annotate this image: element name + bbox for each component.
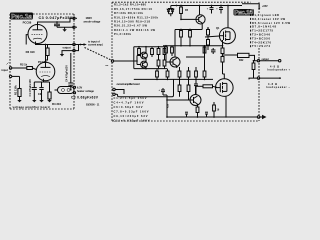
svg-text:R3 310: R3 310 — [26, 50, 35, 54]
svg-text:heater voltage: heater voltage — [77, 90, 95, 93]
svg-text:T4=2SK170: T4=2SK170 — [252, 40, 272, 44]
resistor row lower left — [157, 60, 166, 69]
front left vertical — [133, 47, 135, 69]
lower rail — [134, 78, 213, 80]
svg-text:C7,8=0.33µF 160V: C7,8=0.33µF 160V — [114, 110, 149, 114]
output terminal upper — [73, 43, 75, 45]
resistor row to lower rail — [156, 67, 206, 79]
svg-text:+65V: +65V — [262, 5, 268, 8]
feedback resistor column — [252, 60, 255, 78]
svg-text:D5,6=zener 12V 0.5W: D5,6=zener 12V 0.5W — [252, 21, 290, 25]
svg-text:D3,4=zener 10V 1W: D3,4=zener 10V 1W — [252, 17, 285, 21]
resistor R9 — [189, 29, 192, 46]
list ticks — [250, 14, 252, 47]
svg-text:R1,2=1k2 R4,10=680: R1,2=1k2 R4,10=680 — [114, 3, 147, 7]
capacitor C1 — [32, 82, 37, 100]
transistor T3 — [189, 86, 201, 107]
resistor R24 — [196, 107, 199, 117]
svg-text:R20,21,22=0.47 5W: R20,21,22=0.47 5W — [114, 24, 148, 28]
resistor R5 — [180, 6, 183, 20]
bias wire lower — [163, 45, 223, 47]
label chip Рис.1а — [10, 13, 33, 21]
MOSFET Q2 — [216, 79, 234, 97]
LED D1 — [167, 9, 170, 14]
wire return lower — [249, 78, 257, 79]
heater terminal upper — [73, 86, 75, 88]
resistor R20 — [221, 44, 224, 57]
input terminal lower — [9, 75, 11, 77]
rail junction dots — [176, 5, 229, 7]
resistor R16 — [203, 46, 206, 53]
heater lead left — [55, 89, 58, 91]
heater terminal lower — [73, 92, 75, 94]
input terminal current board — [111, 60, 113, 62]
wire V2 anode up to output — [45, 45, 47, 68]
wire V2 cathode down — [34, 79, 49, 82]
svg-text:D1,2=green LED: D1,2=green LED — [252, 13, 279, 17]
bottom-left terminal lower — [113, 93, 115, 95]
resistor R2 — [12, 67, 37, 70]
resistor R7 — [151, 47, 154, 57]
resistor R4 — [48, 82, 51, 100]
wire output jumper — [75, 45, 78, 51]
heater voltage label — [77, 87, 95, 93]
wire Q2 drain — [223, 74, 225, 79]
speaker terminal lower — [257, 77, 259, 79]
svg-text:voltage amplifier board: voltage amplifier board — [13, 105, 50, 109]
positive rail — [171, 5, 242, 7]
svg-text:C6=0.68µF 63V: C6=0.68µF 63V — [114, 105, 143, 109]
svg-text:C9,10=220µF 63V: C9,10=220µF 63V — [114, 114, 148, 118]
base junction dot — [180, 19, 182, 21]
transistor T1 — [181, 6, 205, 30]
label chip Рис.1б — [234, 9, 254, 17]
front rail — [134, 46, 167, 48]
mid rail — [134, 68, 167, 70]
capacitor parts list — [114, 96, 150, 123]
capacitor C6 — [159, 88, 168, 95]
capacitor C10 — [216, 6, 223, 14]
anode voltage note — [84, 16, 101, 24]
svg-text:current amplifier board: current amplifier board — [117, 83, 140, 86]
resistor R8 — [180, 29, 183, 46]
wire from terminals — [115, 90, 124, 95]
resistor R6 — [138, 47, 141, 56]
svg-text:R4 310: R4 310 — [52, 102, 61, 106]
svg-text:C2: C2 — [38, 92, 42, 96]
wire JFET common — [137, 47, 146, 69]
ground row under R1 — [17, 100, 51, 102]
svg-text:D7,8=1N4148: D7,8=1N4148 — [252, 25, 277, 29]
wire Q1 gate — [205, 36, 220, 37]
chassis ground right — [260, 115, 267, 119]
svg-text:loudspeaker −: loudspeaker − — [266, 86, 291, 89]
anode supply terminal — [73, 17, 75, 19]
input terminal upper — [9, 67, 11, 69]
LED feed tee — [168, 6, 174, 9]
Q2 gate stopper resistor R19 — [196, 85, 218, 88]
svg-text:180V: 180V — [86, 16, 93, 20]
bottom-left terminal upper — [113, 88, 115, 90]
bottom rail terminal — [257, 116, 260, 119]
MOSFET Q1 — [219, 28, 235, 44]
arrow to current amplifier input — [84, 43, 87, 46]
resistor R3 — [46, 45, 50, 61]
svg-text:anode voltage: anode voltage — [84, 20, 101, 23]
small caps on bottom rail — [185, 112, 208, 117]
svg-text:C3 0.68µFx63V: C3 0.68µFx63V — [71, 96, 99, 100]
capacitor C4 heater bypass — [68, 53, 73, 91]
svg-text:R1 110k: R1 110k — [13, 85, 17, 95]
svg-text:P1,2=220k: P1,2=220k — [114, 32, 132, 36]
svg-text:R22: R22 — [239, 59, 244, 62]
svg-text:input: input — [2, 68, 8, 72]
capacitor gate — [211, 48, 216, 54]
resistor R15 — [171, 46, 174, 56]
svg-text:Рис.1а: Рис.1а — [11, 14, 33, 21]
svg-text:C1 470µFx10V: C1 470µFx10V — [28, 79, 32, 97]
speaker connector — [279, 60, 281, 62]
dashed link wire to current board — [85, 48, 112, 61]
wire V1 grid lead — [26, 35, 28, 45]
ground near C3 — [62, 27, 66, 32]
resistor R23 — [213, 102, 216, 117]
trimmer P2 — [163, 47, 166, 60]
svg-text:T3=BC550: T3=BC550 — [252, 36, 271, 40]
wire input lower to R1 — [12, 75, 20, 77]
svg-text:R10,13=820k R11,12=150k: R10,13=820k R11,12=150k — [114, 15, 159, 19]
svg-text:loudspeaker +: loudspeaker + — [267, 69, 291, 72]
wire to speaker — [260, 60, 279, 62]
wire to speaker return — [260, 77, 280, 79]
svg-text:вх.: вх. — [106, 65, 110, 67]
resistor parts list — [114, 3, 159, 36]
capacitor C9 — [207, 6, 214, 14]
wire mid node — [186, 56, 205, 58]
bias junction dots — [165, 45, 223, 47]
components below lower rail — [178, 79, 198, 100]
semiconductor parts list — [252, 13, 290, 48]
wire V1 anode to top — [38, 18, 73, 30]
svg-text:T2=BC546: T2=BC546 — [252, 33, 271, 37]
trimmer P1 — [157, 47, 160, 60]
junction dots mid rails — [136, 46, 205, 80]
heater/cathode return terminal — [73, 26, 75, 28]
svg-text:R7=22k R8,9=10k: R7=22k R8,9=10k — [114, 11, 144, 15]
tube V1 PCC88 — [28, 25, 47, 44]
junction dots lower — [166, 99, 227, 118]
svg-text:C11=0.033µF 160V: C11=0.033µF 160V — [114, 119, 150, 123]
output Zobel resistor R22 — [223, 53, 258, 60]
svg-text:C4 470µFx63V: C4 470µFx63V — [65, 65, 68, 82]
svg-text:C4=4.7µF 160V: C4=4.7µF 160V — [114, 101, 144, 105]
heater symbol — [58, 87, 75, 94]
left bus vertical — [204, 46, 206, 71]
svg-text:T5=2SJ74: T5=2SJ74 — [252, 44, 271, 48]
ground output shield — [60, 54, 64, 57]
resistor R1 — [18, 76, 21, 100]
svg-text:current ampl.: current ampl. — [88, 43, 103, 46]
supply feed wire — [242, 4, 259, 8]
wire Q1 source — [222, 40, 224, 44]
wire V1 cathode to output node — [36, 42, 73, 45]
voltage amplifier board dashed border — [10, 14, 74, 109]
JFET T5 — [137, 61, 147, 68]
tube V2 PCC88 — [36, 62, 55, 81]
svg-text:output: output — [63, 46, 71, 50]
wire LED join — [169, 14, 173, 16]
svg-text:R24=1.1 1W R23=16 1W: R24=1.1 1W R23=16 1W — [114, 28, 156, 32]
svg-text:R5,16,17=750k R6=10: R5,16,17=750k R6=10 — [114, 7, 153, 11]
JFET T4 — [137, 52, 147, 59]
svg-text:R14,15=390 R19=218: R14,15=390 R19=218 — [114, 20, 151, 24]
capacitor C3 — [54, 21, 74, 27]
resistor R14 — [165, 46, 168, 62]
left bias column — [207, 27, 210, 50]
output node dot — [222, 54, 224, 56]
bottom rail — [167, 116, 257, 118]
transistor T2 — [166, 30, 180, 69]
node V1 cathode / V2 anode — [45, 44, 47, 46]
svg-text:R2 1k: R2 1k — [20, 63, 28, 67]
capacitor C2 — [39, 82, 43, 100]
output terminal lower — [73, 49, 75, 51]
wire Q1 drain — [227, 5, 229, 28]
return wire — [115, 79, 173, 96]
current amplifier board dashed border — [112, 2, 259, 121]
svg-text:T1=2SC1775: T1=2SC1775 — [252, 29, 274, 33]
mid bias wire — [175, 29, 202, 31]
svg-text:PCC88: PCC88 — [23, 20, 32, 24]
resistor R21 — [221, 57, 224, 75]
wire output shield to ground — [62, 51, 73, 54]
speaker terminal upper — [257, 60, 259, 62]
wire Q2 source — [225, 96, 227, 117]
wire input to JFETs — [114, 60, 137, 62]
svg-text:03/2006 - 11: 03/2006 - 11 — [86, 104, 100, 107]
wire T3 base bus — [167, 95, 189, 117]
LED D2 — [171, 9, 174, 14]
